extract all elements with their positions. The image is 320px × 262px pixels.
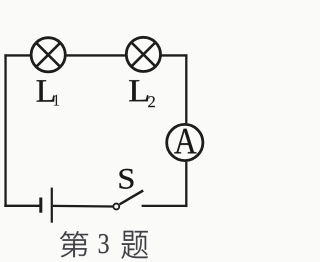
- switch pivot: [113, 204, 119, 210]
- ammeter letter A: [174, 129, 196, 154]
- caption char 第: [60, 231, 88, 257]
- label L1 subscript 1: [54, 95, 59, 106]
- wire: right vertical upper (corner to ammeter): [185, 54, 187, 123]
- ammeter circle: [167, 124, 203, 160]
- label L2 subscript 2: [148, 96, 155, 107]
- switch blade: [120, 191, 144, 205]
- wire: battery to switch pivot: [53, 205, 113, 208]
- battery positive plate (long): [51, 188, 53, 223]
- label L1 letter L: [37, 80, 55, 101]
- battery negative plate (short): [39, 198, 42, 213]
- label L2 letter L: [129, 80, 148, 101]
- switch label S: [120, 169, 134, 189]
- wire: bottom-left corner to battery: [4, 205, 39, 207]
- wire: left vertical: [4, 54, 6, 207]
- wire: bottom horizontal right (switch to corner): [142, 205, 188, 207]
- lamp L2: [126, 37, 160, 71]
- wire: right vertical lower (ammeter to corner): [185, 162, 187, 207]
- caption char 题: [121, 231, 147, 259]
- wire: top horizontal: [4, 54, 187, 56]
- lamp L1: [31, 38, 65, 72]
- caption digit 3: [99, 234, 109, 253]
